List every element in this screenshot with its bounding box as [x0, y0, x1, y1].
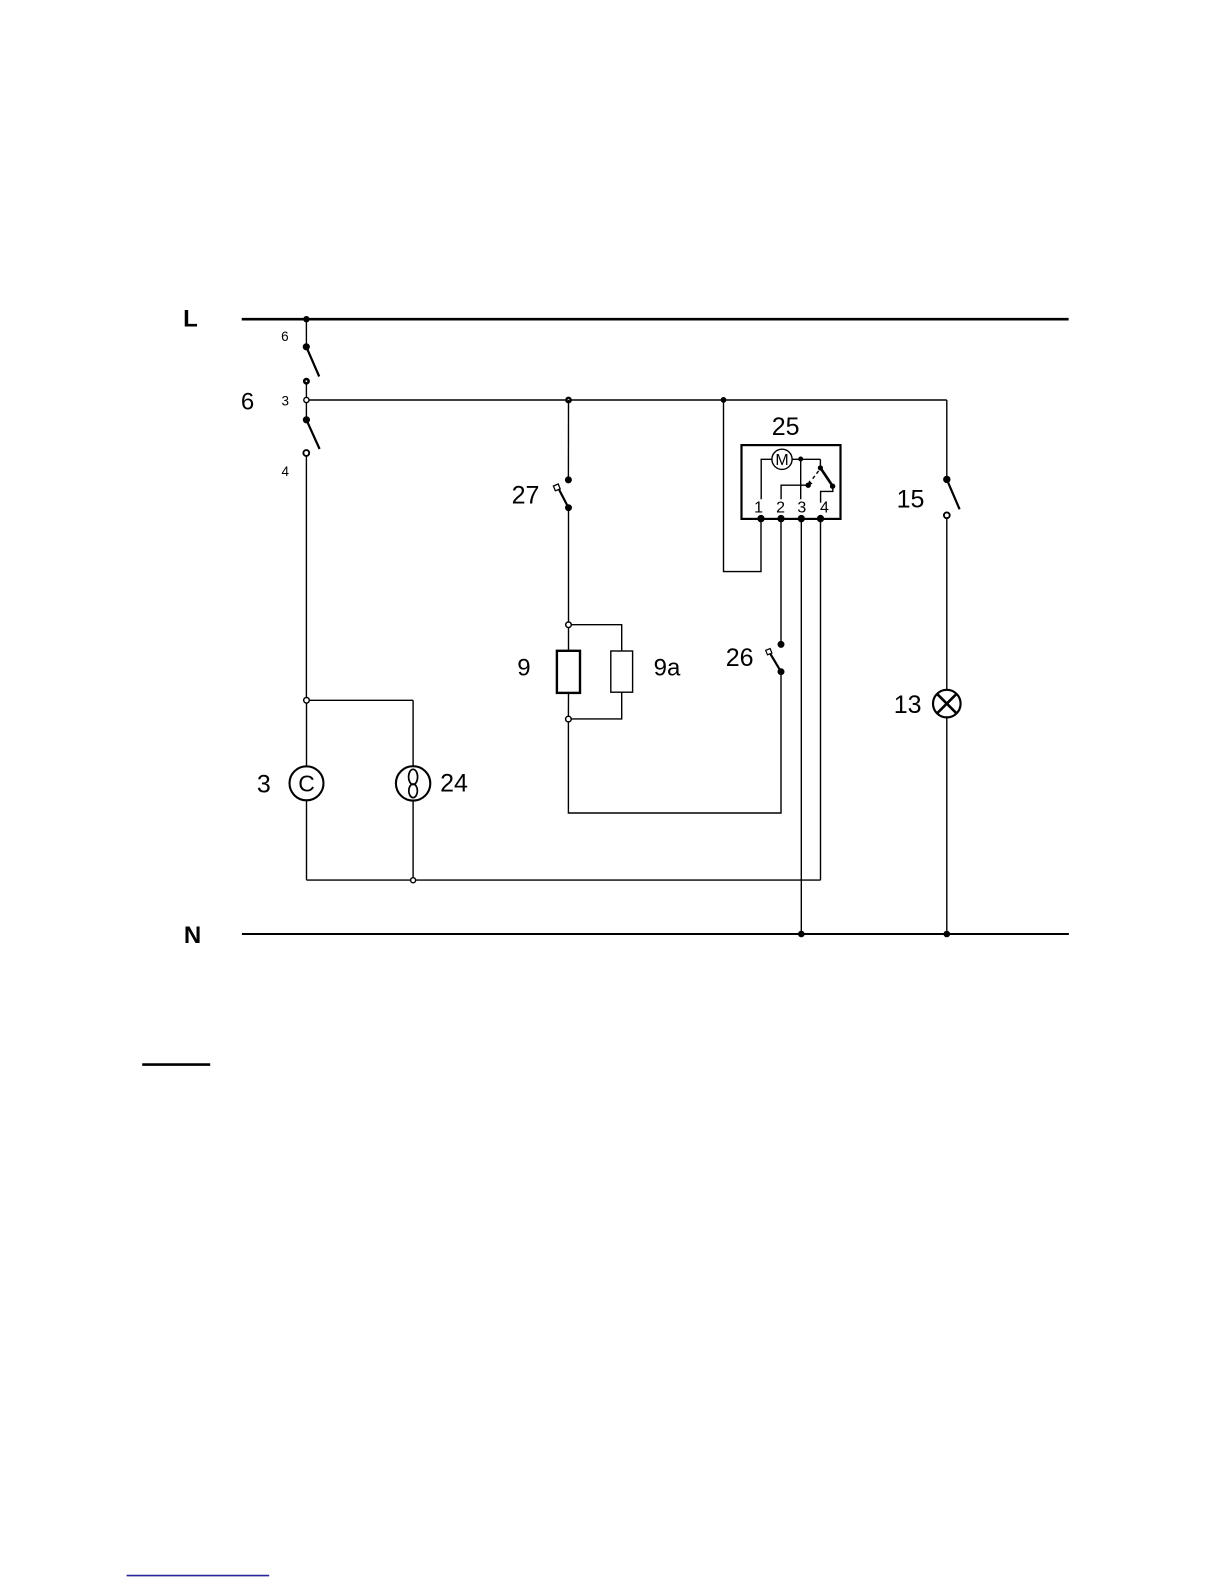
svg-text:1: 1	[754, 499, 763, 516]
svg-text:3: 3	[797, 499, 806, 516]
svg-text:9: 9	[517, 655, 530, 682]
svg-text:3: 3	[257, 771, 271, 799]
svg-text:15: 15	[897, 486, 925, 514]
svg-text:2: 2	[776, 499, 785, 516]
svg-text:6: 6	[281, 329, 289, 344]
svg-text:4: 4	[281, 464, 289, 479]
svg-text:N: N	[184, 922, 201, 949]
svg-text:6: 6	[241, 388, 254, 415]
svg-text:26: 26	[726, 644, 754, 672]
svg-text:C: C	[298, 771, 315, 797]
svg-text:L: L	[183, 306, 198, 333]
svg-text:27: 27	[512, 482, 540, 510]
svg-text:24: 24	[440, 769, 468, 797]
svg-text:25: 25	[772, 413, 800, 441]
svg-text:3: 3	[282, 393, 290, 408]
svg-text:9a: 9a	[654, 655, 681, 682]
svg-text:13: 13	[894, 691, 922, 719]
svg-text:4: 4	[820, 499, 829, 516]
svg-text:M: M	[775, 452, 788, 469]
